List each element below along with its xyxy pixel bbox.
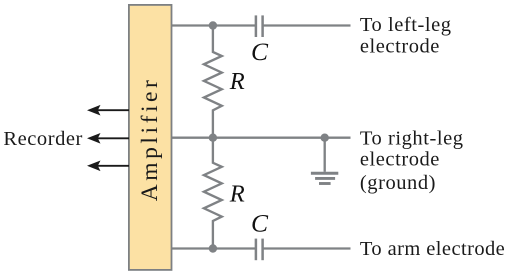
svg-text:C: C [251,37,269,66]
svg-text:To left-leg: To left-leg [360,14,452,36]
svg-text:To arm electrode: To arm electrode [360,238,505,260]
svg-text:electrode: electrode [360,149,440,171]
svg-text:R: R [229,68,245,95]
svg-text:C: C [251,208,269,237]
svg-text:Recorder: Recorder [3,128,83,150]
svg-text:electrode: electrode [360,35,440,57]
svg-text:(ground): (ground) [360,172,436,194]
svg-text:Amplifier: Amplifier [137,77,163,202]
svg-text:To right-leg: To right-leg [360,127,464,149]
svg-text:R: R [229,181,245,208]
